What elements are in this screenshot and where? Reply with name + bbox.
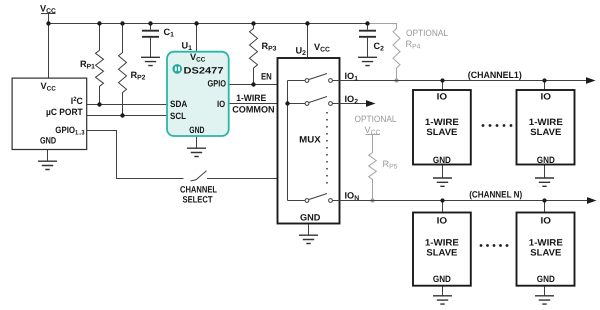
svg-text:I2C: I2C [71,96,83,106]
svg-text:(CHANNEL N): (CHANNEL N) [469,190,522,200]
svg-text:IO: IO [437,215,448,225]
svg-text:SCL: SCL [170,111,186,121]
svg-text:SLAVE: SLAVE [426,248,457,258]
svg-text:OPTIONAL: OPTIONAL [355,114,397,124]
svg-text:IO: IO [541,91,552,101]
svg-text:COMMON: COMMON [232,105,275,115]
svg-text:OPTIONAL: OPTIONAL [406,28,448,38]
svg-text:SLAVE: SLAVE [530,248,561,258]
svg-text:1-WIRE: 1-WIRE [529,117,563,127]
svg-text:IO: IO [437,91,448,101]
svg-text:IO: IO [541,215,552,225]
svg-text:GND: GND [189,125,204,135]
svg-text:GPIO: GPIO [208,78,227,88]
svg-text:1-WIRE: 1-WIRE [425,117,459,127]
svg-text:CHANNEL: CHANNEL [180,185,217,195]
svg-text:SELECT: SELECT [183,194,213,204]
svg-text:1-WIRE: 1-WIRE [236,93,266,103]
svg-text:GND: GND [40,136,56,146]
svg-text:IO: IO [217,99,225,109]
svg-text:MUX: MUX [299,135,321,145]
svg-text:DS2477: DS2477 [184,65,224,75]
svg-text:GND: GND [537,155,555,165]
svg-text:GND: GND [433,274,451,284]
svg-text:(CHANNEL1): (CHANNEL1) [468,70,522,80]
svg-text:SDA: SDA [170,99,188,109]
svg-text:GND: GND [300,213,321,223]
svg-text:1-WIRE: 1-WIRE [529,237,563,247]
svg-text:GND: GND [433,155,451,165]
svg-text:1-WIRE: 1-WIRE [425,237,459,247]
svg-text:EN: EN [261,72,272,82]
svg-text:SLAVE: SLAVE [530,127,561,137]
svg-text:GND: GND [537,274,555,284]
svg-text:µC PORT: µC PORT [46,107,83,117]
svg-text:SLAVE: SLAVE [426,127,457,137]
